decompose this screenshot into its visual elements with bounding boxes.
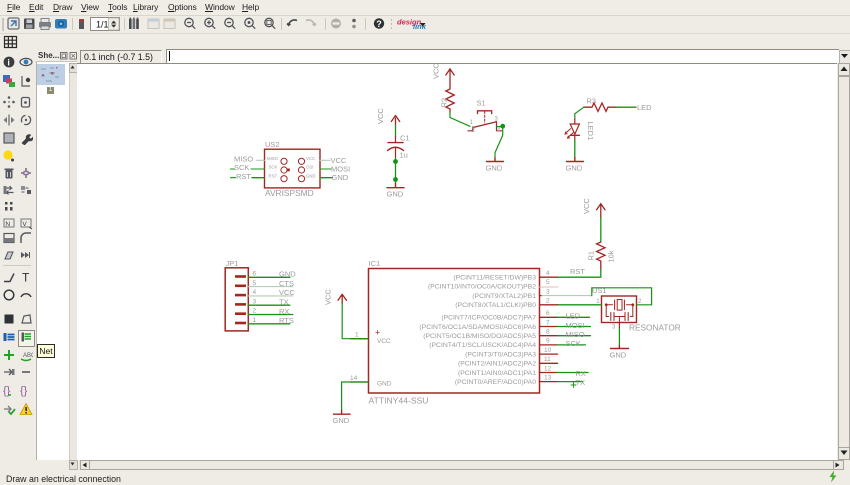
svg-text:9: 9: [546, 338, 550, 345]
open icon: [8, 18, 19, 29]
resistor R2: [440, 87, 455, 113]
combo dropdown button: [839, 50, 850, 64]
svg-text:2: 2: [546, 298, 550, 305]
wire JP1 pin1 RTS: [248, 316, 294, 325]
separator: [72, 18, 73, 30]
grid icon: [5, 37, 17, 48]
svg-text:OSI: OSI: [306, 165, 313, 170]
print icon: [39, 19, 51, 30]
library icon: [129, 17, 139, 29]
net label MOSI (right of US2): [331, 165, 350, 174]
svg-text:13: 13: [544, 374, 552, 381]
pin 12 stub: [458, 365, 558, 377]
svg-text:R2: R2: [440, 98, 449, 108]
window icon disabled 1: [148, 19, 159, 29]
wire pin7 MOSI: [558, 321, 591, 330]
resonator US1: [592, 286, 681, 333]
sheet spinbox: [91, 18, 120, 31]
svg-text:{}: {}: [20, 385, 28, 397]
wire pin8 MISO: [558, 330, 591, 339]
svg-text:C1: C1: [400, 134, 410, 143]
svg-text:VCC: VCC: [582, 198, 591, 214]
svg-text:5: 5: [253, 280, 257, 287]
wire MISO to US2: [257, 159, 265, 161]
panel scrollbar: [69, 63, 77, 460]
wire pin9 SCK: [558, 339, 586, 348]
svg-text:RX: RX: [279, 307, 289, 316]
wire R2 to S1: [450, 113, 470, 127]
net label MISO (left of US2): [234, 155, 253, 164]
stop (disabled): [331, 19, 341, 29]
svg-text:(PCINT3/T0/ADC3)PA3: (PCINT3/T0/ADC3)PA3: [465, 351, 536, 358]
svg-text:(PCINT11/RESET/DW)PB3: (PCINT11/RESET/DW)PB3: [453, 275, 536, 282]
image/export icon: [55, 19, 67, 29]
svg-text:US2: US2: [265, 140, 280, 149]
pin 13 stub: [455, 374, 558, 386]
pin 10 stub: [465, 347, 557, 359]
svg-text:1: 1: [470, 120, 474, 126]
svg-text:MISO: MISO: [234, 155, 253, 164]
svg-text:MISO: MISO: [566, 330, 585, 339]
ground below US1: [610, 346, 629, 360]
svg-text:(PCINT5/OC1B/MISO/DO/ADC5)PA5: (PCINT5/OC1B/MISO/DO/ADC5)PA5: [423, 333, 536, 340]
separator: [365, 18, 366, 30]
net label SCK (left of US2): [234, 163, 249, 172]
svg-text:GND: GND: [332, 173, 349, 182]
svg-text:JP1: JP1: [226, 259, 239, 268]
svg-text:(PCINT7/ICP/OC0B/ADC7)PA7: (PCINT7/ICP/OC0B/ADC7)PA7: [441, 315, 536, 322]
svg-text:R1: R1: [587, 251, 596, 261]
svg-text:5: 5: [546, 279, 550, 286]
window icon disabled 2: [164, 19, 175, 29]
canvas: [77, 63, 837, 460]
svg-text:(PCINT8/XTAL1/CLKI)PB0: (PCINT8/XTAL1/CLKI)PB0: [455, 302, 536, 309]
pin 14 stub (GND): [350, 375, 369, 382]
pin 1 stub (VCC): [350, 332, 368, 339]
status bar: [0, 470, 850, 485]
separator: [325, 18, 326, 30]
wire JP1 pin3 TX: [248, 298, 289, 307]
svg-text:GND: GND: [486, 164, 503, 173]
resistor R3: [584, 97, 617, 112]
svg-text:8: 8: [546, 329, 550, 336]
svg-text:US1: US1: [592, 286, 607, 295]
toolbar row 1: [0, 16, 850, 34]
svg-text:IC1: IC1: [369, 259, 381, 268]
svg-text:N: N: [5, 221, 10, 228]
svg-text:TX: TX: [279, 298, 289, 307]
svg-text:6: 6: [253, 271, 257, 278]
svg-text:4: 4: [253, 289, 257, 296]
svg-text:S1: S1: [477, 99, 486, 108]
coordinate display box: [80, 50, 162, 64]
svg-text:(PCINT0/AREF/ADC0)PA0: (PCINT0/AREF/ADC0)PA0: [455, 379, 536, 386]
svg-text:RESONATOR: RESONATOR: [629, 323, 681, 333]
svg-text:2: 2: [253, 308, 257, 315]
wire VCC to C1: [395, 125, 397, 137]
power VCC above R2: [432, 63, 455, 87]
svg-text:CTS: CTS: [279, 279, 294, 288]
svg-text:SCK: SCK: [566, 339, 581, 348]
svg-text:1/1: 1/1: [96, 20, 109, 30]
designlink logo: [397, 18, 427, 32]
wire pin12 RX: [558, 369, 588, 378]
separator: [124, 18, 125, 30]
svg-text:RST: RST: [269, 173, 278, 178]
svg-text:VCC: VCC: [331, 156, 347, 165]
wire IC pin14 to GND: [342, 382, 369, 410]
junction above GND: [393, 177, 398, 182]
go marks: [352, 19, 356, 29]
svg-text:GND: GND: [377, 381, 392, 388]
svg-text:GND: GND: [387, 190, 404, 199]
svg-text:MOSI: MOSI: [331, 165, 350, 174]
svg-text:LED: LED: [637, 103, 652, 112]
svg-text:1: 1: [253, 317, 257, 324]
undo: [287, 20, 297, 25]
svg-text:AVRISPSMD: AVRISPSMD: [265, 188, 314, 198]
svg-text:VCC: VCC: [432, 63, 441, 79]
net label GND (right of US2): [332, 173, 349, 182]
svg-text:LED: LED: [566, 312, 581, 321]
svg-text:2: 2: [638, 299, 642, 305]
svg-text:GND: GND: [610, 351, 627, 360]
svg-text:RST: RST: [570, 267, 585, 276]
wire RST to US2: [231, 177, 265, 179]
toolbar row 2 (grid): [0, 34, 850, 50]
svg-text:V: V: [22, 221, 27, 228]
zoom redraw: [245, 18, 255, 28]
wire pin6 LED: [558, 312, 590, 321]
svg-text:i: i: [7, 57, 10, 67]
net label LED (right of R3): [637, 103, 652, 112]
wire pin13 TX: [558, 378, 585, 387]
pin 3 stub: [472, 288, 550, 300]
wire US1 to GND: [618, 323, 620, 346]
zoom fit: [185, 18, 195, 28]
svg-text:MOSI: MOSI: [566, 321, 585, 330]
svg-text:ABC: ABC: [23, 353, 33, 359]
svg-text:T: T: [22, 271, 30, 285]
svg-text:MISO: MISO: [267, 156, 279, 161]
svg-text:4: 4: [546, 270, 550, 277]
switch S1: [468, 99, 502, 134]
svg-text:11: 11: [544, 356, 551, 363]
status lightning: [826, 470, 840, 483]
pin 8 stub: [423, 329, 557, 341]
wire IC pin2 to US1 pin1: [558, 304, 602, 306]
wire C1 to GND: [395, 158, 397, 184]
wire US2 to VCC label: [320, 159, 330, 161]
zoom out: [225, 18, 235, 28]
wire S1 to GND: [495, 126, 503, 157]
pin 7 stub: [419, 319, 557, 331]
svg-text:10: 10: [544, 347, 552, 354]
script icon: [79, 19, 84, 29]
svg-text:12: 12: [544, 365, 552, 372]
svg-text:TX: TX: [576, 378, 586, 387]
wire R3 to LED label: [617, 106, 636, 108]
ground below C1: [387, 184, 405, 199]
ground below S1: [486, 158, 504, 173]
svg-text:(PCINT1/AIN0/ADC1)PA1: (PCINT1/AIN0/ADC1)PA1: [458, 370, 536, 377]
wire SCK to US2: [231, 168, 265, 170]
command input field: [166, 49, 839, 63]
wire US2 to GND label: [320, 177, 333, 179]
svg-text:1u: 1u: [400, 151, 408, 160]
separator: [281, 18, 282, 30]
LED LED1: [565, 119, 595, 140]
svg-text:(PCINT10/INT0/OC0A/CKOUT)PB2: (PCINT10/INT0/OC0A/CKOUT)PB2: [428, 284, 536, 291]
sheet thumbnail: [37, 64, 65, 85]
capacitor C1: [388, 134, 410, 160]
power VCC above R1: [582, 198, 605, 218]
coordinate row background: [0, 49, 850, 63]
wire IC pin3 to US1 pin2: [541, 288, 652, 305]
help: [374, 18, 384, 29]
resistor R1: [587, 242, 616, 270]
svg-text:VCC: VCC: [279, 288, 295, 297]
IC IC1 ATTINY44: [369, 259, 540, 406]
svg-text:RST: RST: [236, 172, 251, 181]
net label RST (left of US2): [236, 172, 251, 181]
junction below C1: [393, 159, 398, 164]
svg-text:10k: 10k: [607, 250, 616, 262]
pin 11 stub: [458, 356, 558, 368]
svg-text:VCC: VCC: [376, 108, 385, 124]
svg-text:+: +: [375, 328, 380, 338]
pin 4 stub: [453, 270, 557, 282]
svg-text:VCC: VCC: [324, 289, 333, 305]
separator dotted: [391, 19, 392, 21]
svg-text:14: 14: [350, 375, 358, 382]
ground below IC pin14: [333, 410, 351, 425]
menu bar: [0, 0, 850, 16]
svg-text:1: 1: [596, 299, 600, 305]
zoom select: [265, 18, 275, 28]
pin 6 stub: [441, 310, 557, 322]
svg-text:3: 3: [612, 325, 616, 331]
wire IC pin4 to R1: [558, 270, 601, 277]
wire R3 to LED1: [575, 107, 584, 119]
sheets panel: [35, 49, 77, 461]
svg-text:?: ?: [376, 19, 382, 29]
pin 2 stub: [455, 298, 557, 310]
svg-text:RX: RX: [576, 369, 586, 378]
save icon: [24, 19, 35, 30]
svg-text:GND: GND: [566, 164, 583, 173]
svg-text:(PCINT6/OC1A/SDA/MOSI/ADC6)PA6: (PCINT6/OC1A/SDA/MOSI/ADC6)PA6: [419, 324, 536, 331]
pin 5 stub: [428, 279, 558, 291]
connector US2 AVRISP-SMD: [265, 140, 321, 198]
connector JP1: [225, 259, 256, 331]
wire JP1 pin5 CTS: [248, 279, 294, 288]
net label RST (at R1): [570, 267, 585, 276]
net label VCC (right of US2): [331, 156, 347, 165]
wire LED1 to GND: [574, 140, 576, 158]
svg-text:(PCINT9/XTAL2)PB1: (PCINT9/XTAL2)PB1: [472, 293, 536, 300]
svg-text:VCC: VCC: [377, 338, 391, 345]
power VCC above C1: [376, 108, 400, 125]
svg-text:(PCINT4/T1/SCL/USCK/ADC4)PA4: (PCINT4/T1/SCL/USCK/ADC4)PA4: [429, 342, 536, 349]
canvas v scrollbar: [838, 63, 850, 459]
svg-text:(PCINT2/AIN1/ADC2)PA2: (PCINT2/AIN1/ADC2)PA2: [458, 361, 536, 368]
svg-text:1: 1: [355, 332, 359, 339]
svg-text:2: 2: [472, 128, 476, 134]
svg-text:3: 3: [495, 117, 499, 123]
sheet number badge: [47, 87, 54, 94]
svg-text:GND: GND: [306, 173, 316, 178]
power VCC at IC pin1: [324, 289, 347, 305]
canvas h scrollbar: [79, 460, 843, 470]
pin 9 stub: [429, 338, 557, 350]
wire VCC to IC pin1: [342, 304, 368, 339]
redo (disabled): [306, 20, 316, 25]
zoom in: [205, 18, 215, 28]
svg-text:3: 3: [253, 298, 257, 305]
svg-text:7: 7: [546, 319, 550, 326]
svg-text:LED1: LED1: [586, 122, 595, 141]
junction right of S1: [500, 124, 505, 129]
svg-text:GND: GND: [333, 416, 350, 425]
ground below LED1: [566, 158, 584, 173]
wire JP1 pin2 RX: [248, 307, 292, 316]
svg-text:VCC: VCC: [306, 156, 315, 161]
wire JP1 pin6 GND: [248, 270, 296, 279]
wire US2 to MOSI label: [320, 168, 331, 170]
svg-text:ATTINY44-SSU: ATTINY44-SSU: [369, 396, 429, 406]
svg-text:SCK: SCK: [269, 165, 278, 170]
svg-text:GND: GND: [279, 270, 296, 279]
svg-text:3: 3: [546, 288, 550, 295]
wire VCC to R1: [600, 218, 602, 242]
svg-text:RTS: RTS: [279, 316, 294, 325]
svg-text:6: 6: [546, 310, 550, 317]
wire JP1 pin4 VCC: [248, 288, 295, 297]
schematic canvas drawing: [77, 63, 837, 459]
